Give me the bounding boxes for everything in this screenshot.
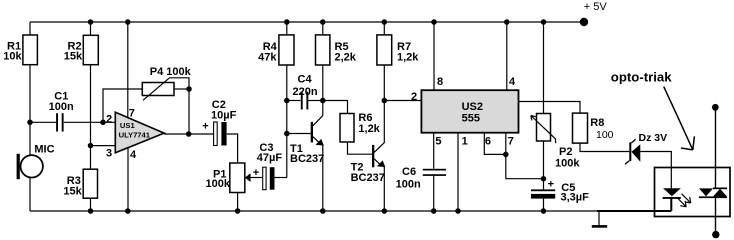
wire bottom ground rail [30,210,599,212]
wire R5 bottom to T1 collector node [322,65,324,116]
svg-text:5: 5 [435,136,441,148]
transistor T2 emitter arrowhead [377,160,385,167]
capacitor C5 negative plate [531,194,555,199]
wire left column R1/MIC [29,22,31,211]
svg-text:ULY7741: ULY7741 [119,131,151,140]
wire C5 bottom to ground rail [543,199,545,211]
opto-triac LED triangle [663,188,681,196]
wire P4 feedback drop to op-amp output [188,89,190,134]
wire LED cathode to ground rail [670,198,672,211]
wire C1 left segment from mic column [30,121,56,123]
wire op-amp pin 3 from R2/R3 node [91,145,116,147]
zener diode Dz cathode bar [629,142,631,161]
svg-text:15k: 15k [63,185,82,197]
svg-text:100k: 100k [206,178,231,190]
wire 555 pin 5 to C6 [433,133,435,169]
svg-text:100: 100 [596,129,614,141]
capacitor C5 positive plate [531,189,555,191]
potentiometer P2 body [537,114,551,142]
svg-text:2,2k: 2,2k [335,51,357,63]
svg-text:MIC: MIC [34,144,54,156]
capacitor C2 positive plate [214,122,218,146]
annotation arrow to opto-triac [664,87,695,150]
resistor R1 [23,35,38,65]
transistor T1 base bar [311,122,313,142]
capacitor C4 plates [301,92,303,110]
resistor R2 [83,35,98,64]
opto-triac LED emission arrows [677,194,691,207]
svg-text:2: 2 [411,91,417,103]
wire top +5V rail [30,21,584,23]
potentiometer P2 wiper diagonal with arrow [531,116,556,144]
svg-text:C6: C6 [402,166,416,178]
potentiometer P4 body [142,83,174,96]
wire triac bottom terminal [715,197,717,235]
wire P1 bottom to ground rail [237,193,239,212]
svg-text:47µF: 47µF [257,152,283,164]
wire triac top terminal [715,107,717,188]
wire R7 bottom to pin2 node [383,65,385,101]
wire mains neutral stub [598,211,600,225]
resistor R7 [377,35,392,65]
resistor R5 [316,35,330,65]
capacitor C3 negative plate [270,167,275,190]
node op-amp output [186,131,192,137]
svg-text:C4: C4 [298,73,313,85]
transistor T1 emitter arrowhead [316,139,324,146]
microphone MIC back plate [17,154,20,179]
node T1 base/C3 [284,131,290,137]
svg-text:100n: 100n [396,178,421,190]
svg-text:555: 555 [462,113,480,125]
svg-text:R8: R8 [590,117,604,129]
zener diode Dz cathode hooks [625,139,636,164]
svg-text:opto-triak: opto-triak [611,69,672,84]
node R4/C4 [284,98,290,104]
wire T2 emitter drop to ground rail [383,167,385,211]
opto-triac triac top bar [713,188,727,190]
svg-text:47k: 47k [258,51,277,63]
wire feedback from pin2 node up to P4 left [103,89,142,122]
junction dots bottom rail [88,208,94,214]
svg-text:100n: 100n [49,101,74,113]
wire T1 emitter diagonal [313,137,321,145]
svg-text:+: + [548,179,554,191]
svg-text:220n: 220n [293,86,318,98]
svg-text:100k: 100k [555,157,580,169]
svg-text:4: 4 [509,76,516,88]
potentiometer P1 wiper arrowhead [245,173,251,182]
wire op-amp pin 4 drop to ground rail [127,148,129,211]
wire C4 right segment to R5/T1 node [308,100,323,102]
resistor R4 [279,35,294,65]
wire 555 pin 6 loop to pin 7 column [484,133,506,155]
wire +5V drop to P2 top [543,22,545,114]
svg-text:4: 4 [130,149,137,161]
wire C3 to T1 base riser [275,177,287,179]
svg-text:2: 2 [106,114,112,126]
wire 555 pin 8 to +5V rail [433,22,435,90]
svg-text:10µF: 10µF [211,110,237,122]
capacitor C3 positive plate [263,167,266,190]
resistor R6 [340,114,354,143]
svg-text:3,3µF: 3,3µF [561,192,590,204]
potentiometer P1 body [230,163,245,193]
wire 555 pin 1 to ground rail [457,133,459,211]
potentiometer P4 wiper diagonal [143,78,170,101]
wire R8 bottom to zener [580,143,629,151]
IC US2 555 body [421,90,518,133]
wire P2 bottom to C5 top [543,141,545,189]
wire T2 collector riser to pin2 node [383,101,385,144]
svg-text:1,2k: 1,2k [397,51,419,63]
wire T2 emitter diagonal [374,159,382,166]
svg-text:P4 100k: P4 100k [150,66,192,78]
svg-text:Dz 3V: Dz 3V [639,132,668,144]
resistor R8 [573,113,588,143]
wire P1 wiper to C3 [251,177,263,179]
opto-triac package box [655,168,731,217]
junction dots top rail [88,19,94,25]
wire 555 pin 3 output to R8 [519,102,581,114]
svg-text:10k: 10k [3,51,22,63]
wire R7 column top [383,22,385,35]
svg-text:+: + [202,120,208,132]
wire C2 to P1 top [227,134,238,163]
transistor T2 base bar [372,145,374,167]
terminal dot +5V [580,18,588,26]
wire T2 collector diagonal [374,143,384,153]
wire T1 emitter drop to ground rail [322,145,324,211]
wire node to R6 top [323,101,348,114]
wire R5 column top [322,22,324,35]
opto-triac LED cathode bar [663,197,681,199]
svg-text:BC237: BC237 [351,172,385,184]
wire op-amp pin 7 riser to +5V rail [127,22,129,118]
svg-text:US1: US1 [120,121,136,130]
wire C4 left segment from R4 column [287,100,301,102]
opto-triac triac bottom bar [699,196,727,198]
svg-text:1,2k: 1,2k [358,123,380,135]
node R7/T2 collector/pin2 [382,98,388,104]
node P4 right terminal [186,86,192,92]
wire 555 pin 2 input [384,100,421,102]
wire LED anode inside box [670,168,672,188]
terminal dot triac bottom [712,231,719,238]
wire R4 column / T1 base riser [286,22,288,178]
capacitor C6 plates [423,169,446,171]
node op-amp pin2/feedback [100,120,106,126]
wire bottom rail thick segment into opto box [597,210,671,212]
wire C6 bottom to ground rail [433,176,435,211]
svg-text:1: 1 [462,136,468,148]
wire mains neutral bar [592,225,607,228]
svg-text:P2: P2 [559,146,572,158]
opto-triac triac left triangle [699,188,713,196]
wire P4 wiper tie to right terminal [170,78,190,89]
node R5/T1 collector/C4 [320,98,326,104]
svg-text:+: + [253,167,259,179]
svg-text:8: 8 [437,76,443,88]
wire P4 right terminal to feedback node [174,88,189,90]
svg-text:3: 3 [106,147,112,159]
wire op-amp output to C2 [164,133,213,135]
svg-text:7: 7 [508,136,514,148]
svg-text:7: 7 [129,108,135,120]
wire T1 collector diagonal [313,116,323,126]
node pin7/P2/C5 [541,176,547,182]
terminal dot triac top [712,104,719,111]
resistor R3 [83,169,97,198]
svg-text:US2: US2 [462,101,483,113]
wire T1 base [287,133,311,135]
wire zener to opto LED anode [640,152,671,169]
svg-text:BC237: BC237 [290,153,324,165]
wire R2/R3 column [90,22,92,211]
node C1/mic junction [27,120,33,126]
microphone MIC body [21,155,43,177]
node pin6/pin7 [503,152,509,158]
capacitor C2 negative plate [221,122,226,146]
wire 555 pin 7 down and right to P2/C5 node [506,133,544,179]
node op-amp pin3/R2/R3 [88,143,94,149]
wire 555 pin 4 to +5V rail [506,22,508,90]
wire C1 right segment to op-amp pin 2 [64,121,116,123]
svg-text:6: 6 [485,136,491,148]
svg-text:15k: 15k [64,51,83,63]
op-amp US1 triangle [115,112,164,153]
zener diode Dz triangle [632,144,641,162]
opto-triac triac right triangle [713,189,727,197]
svg-text:+ 5V: + 5V [584,1,608,13]
capacitor C1 plates [56,113,58,131]
wire R6 bottom to T2 base [348,142,373,154]
